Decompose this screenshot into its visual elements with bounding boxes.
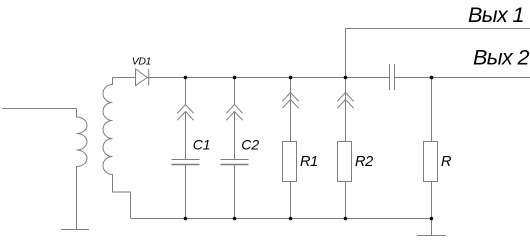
wire <box>395 77 530 79</box>
wire <box>431 78 433 142</box>
ground <box>61 229 89 231</box>
arrows C2 <box>226 105 242 121</box>
arrows C1 <box>177 105 193 121</box>
wire <box>345 182 347 219</box>
wire <box>185 78 187 105</box>
wire <box>234 112 236 160</box>
node <box>184 217 188 221</box>
ground <box>417 235 446 237</box>
wire <box>431 219 433 236</box>
arrows R1 <box>282 93 298 109</box>
svg-text:R: R <box>441 154 452 170</box>
resistor R2 <box>338 142 352 182</box>
node <box>344 217 348 221</box>
svg-text:C2: C2 <box>241 137 259 153</box>
node <box>430 217 434 221</box>
wire <box>345 29 347 78</box>
capacitor C3 (series output) <box>390 64 395 90</box>
node <box>430 76 434 80</box>
svg-text:Вых 2: Вых 2 <box>473 45 529 69</box>
resistor R <box>424 142 438 182</box>
svg-text:Вых 1: Вых 1 <box>468 3 524 27</box>
node <box>184 76 188 80</box>
node <box>233 217 237 221</box>
wire <box>290 182 292 219</box>
capacitor C1 <box>172 160 200 165</box>
diode VD1 <box>136 69 149 86</box>
wire <box>2 108 77 110</box>
wire <box>147 77 389 79</box>
resistor R1 <box>283 142 297 182</box>
transformer primary winding L1 <box>77 109 88 230</box>
wire <box>131 218 432 220</box>
wire <box>345 78 347 142</box>
node <box>344 76 348 80</box>
capacitor C2 <box>221 160 249 165</box>
wire <box>290 78 292 143</box>
arrows R2 <box>337 93 353 109</box>
wire <box>113 77 136 79</box>
wire <box>185 165 187 219</box>
transformer secondary winding L2 <box>103 78 131 219</box>
svg-text:VD1: VD1 <box>132 55 151 67</box>
wire <box>234 78 236 105</box>
wire <box>431 182 433 219</box>
wire <box>234 165 236 219</box>
node <box>233 76 237 80</box>
wire <box>185 112 187 160</box>
node <box>289 217 293 221</box>
wire <box>346 28 530 30</box>
svg-text:R2: R2 <box>355 154 373 170</box>
node <box>289 76 293 80</box>
svg-text:C1: C1 <box>193 137 211 153</box>
svg-text:R1: R1 <box>300 154 318 170</box>
